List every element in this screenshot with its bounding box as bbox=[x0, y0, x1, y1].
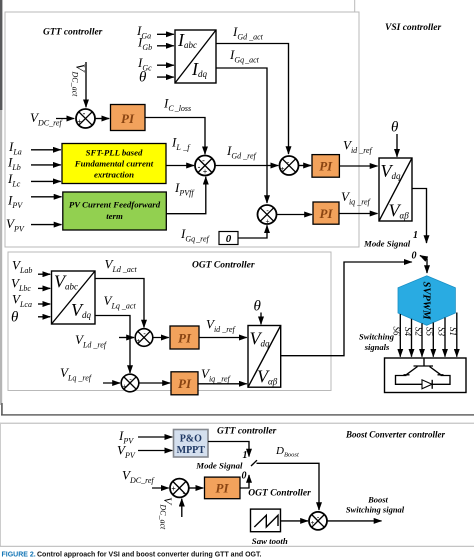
svg-text:S1: S1 bbox=[448, 327, 458, 336]
wire PI-B to dq/ab block bbox=[339, 165, 377, 167]
svg-text:OGT Controller: OGT Controller bbox=[192, 261, 255, 271]
svg-text:Switching: Switching bbox=[359, 332, 395, 342]
svg-text:VLca: VLca bbox=[12, 292, 32, 310]
svg-text:Viq_ref: Viq_ref bbox=[201, 366, 232, 384]
diode (antiparallel) bbox=[422, 380, 432, 389]
wire PI-D to OGT dq/ab block bbox=[199, 337, 247, 339]
svg-text:θ: θ bbox=[254, 299, 262, 315]
wire I_Gc to abc/dq bbox=[157, 64, 174, 66]
wire OGT dq/ab output to mode switch input 0 bbox=[281, 262, 412, 356]
summing junction J1 (current reference) bbox=[195, 156, 215, 177]
svg-text:P&O: P&O bbox=[180, 434, 202, 445]
wire I_Gq_ref zero box to J3 bbox=[238, 225, 267, 238]
wire V_DC_act down to summing junction bbox=[85, 62, 87, 107]
stub line above GTT box bbox=[354, 0, 356, 12]
wire D_Boost switch to comparator bbox=[257, 463, 320, 510]
wire theta to GTT dq/ab block bbox=[396, 134, 398, 157]
wire J3 to PI-C bbox=[277, 214, 313, 216]
svg-text:+: + bbox=[137, 337, 141, 345]
svg-text:ILb: ILb bbox=[7, 155, 21, 173]
transform block V_dq / V_ab (OGT) bbox=[248, 326, 281, 388]
Boost converter box left border bbox=[0, 423, 1, 547]
svg-text:SFT-PLL based: SFT-PLL based bbox=[86, 148, 143, 158]
svg-text:PI: PI bbox=[319, 159, 333, 174]
wire S3 bbox=[444, 318, 446, 357]
wire MPPT to mode switch input 1 bbox=[208, 442, 249, 457]
svg-text:Switching signal: Switching signal bbox=[346, 505, 405, 515]
wire J6 to PI-F bbox=[189, 487, 204, 489]
summing junction J3 (q-axis current error) bbox=[258, 205, 277, 226]
svg-text:-: - bbox=[83, 109, 86, 118]
frame: VSI region bottom border bbox=[1, 414, 474, 415]
svg-text:PV Current Feedforward: PV Current Feedforward bbox=[69, 200, 161, 210]
svg-text:PI: PI bbox=[178, 376, 192, 391]
wire I_Gd_ref J1 to J2 bbox=[215, 165, 278, 167]
svg-text:ILc: ILc bbox=[7, 171, 21, 189]
wire S6 bbox=[399, 314, 401, 357]
wire theta to abc/dq bbox=[157, 76, 174, 78]
svg-text:GTT controller: GTT controller bbox=[43, 28, 103, 38]
svg-text:Vid_ref: Vid_ref bbox=[343, 138, 374, 156]
Boost converter box bottom border bbox=[0, 546, 474, 547]
wire I_C_loss from PI-A down to J1 bbox=[145, 118, 205, 155]
summing junction J4 (d-axis voltage error) bbox=[135, 329, 153, 347]
svg-text:-: - bbox=[202, 156, 205, 165]
summing junction J2 (d-axis current error) bbox=[280, 156, 299, 175]
svg-text:Mode Signal: Mode Signal bbox=[195, 461, 243, 471]
wire PI-C to dq/ab block bbox=[339, 213, 378, 215]
wire S4 bbox=[411, 319, 413, 357]
svg-text:1: 1 bbox=[413, 230, 418, 241]
svg-text:IGd_ref: IGd_ref bbox=[226, 143, 257, 161]
frame: VSI region bottom-left edge bbox=[1, 403, 3, 416]
wire V_Lab to V_abc block bbox=[38, 273, 50, 275]
wire theta to OGT dq/ab block bbox=[260, 313, 262, 325]
svg-text:VLbc: VLbc bbox=[11, 276, 31, 294]
svg-text:0: 0 bbox=[242, 471, 247, 482]
svg-text:+: + bbox=[77, 118, 82, 127]
svg-text:VLab: VLab bbox=[12, 258, 32, 276]
transform block V_dq / V_ab (GTT) bbox=[379, 158, 412, 221]
wire J2 to PI-B bbox=[299, 165, 312, 167]
wire PI-F to mode switch input 0 bbox=[240, 475, 249, 488]
svg-text:Mode Signal: Mode Signal bbox=[363, 239, 411, 249]
svg-text:+: + bbox=[281, 165, 285, 173]
svg-text:S3: S3 bbox=[436, 327, 446, 337]
svg-text:IGd_act: IGd_act bbox=[232, 24, 264, 42]
frame: page left edge bar (top dark) bbox=[0, 0, 2, 110]
IGBT transistor symbol bbox=[404, 359, 444, 375]
svg-text:VDC_act: VDC_act bbox=[159, 497, 176, 530]
svg-text:IPVff: IPVff bbox=[174, 180, 195, 198]
wire I_Ga to abc/dq bbox=[157, 33, 174, 35]
frame: page left edge bar (lower light) bbox=[0, 110, 2, 405]
svg-text:S4: S4 bbox=[403, 327, 413, 337]
svg-text:VLd_ref: VLd_ref bbox=[75, 332, 108, 350]
svg-text:+: + bbox=[171, 485, 176, 494]
svg-text:VLd_act: VLd_act bbox=[105, 257, 138, 275]
PI controller PI-F (boost) bbox=[205, 477, 241, 499]
mode switch arm bbox=[420, 256, 428, 260]
svg-text:term: term bbox=[106, 211, 123, 221]
block VSI bridge (IGBT box) bbox=[385, 358, 467, 393]
wire I_PVff from green block up into J1 bbox=[166, 177, 206, 214]
wire I_Gq_act bbox=[216, 68, 267, 203]
svg-text:-: - bbox=[198, 163, 201, 172]
wire V_DC_ref to J6 bbox=[152, 487, 169, 489]
wire PI-E to OGT dq/ab block bbox=[198, 383, 247, 385]
wire I_Gd_act bbox=[216, 44, 289, 155]
wire I_Gb to abc/dq bbox=[157, 45, 174, 47]
svg-text:IC_loss: IC_loss bbox=[163, 96, 191, 114]
wire IGBT loop bbox=[396, 376, 451, 385]
svg-text:+: + bbox=[203, 168, 208, 177]
svg-text:PI: PI bbox=[216, 481, 230, 496]
wire I_La to SFT-PLL block bbox=[31, 149, 61, 151]
svg-text:OGT Controller: OGT Controller bbox=[248, 489, 311, 499]
GTT controller box bbox=[5, 12, 359, 247]
PI controller PI-A (DC voltage) bbox=[111, 105, 146, 131]
svg-text:VSI controller: VSI controller bbox=[385, 23, 442, 33]
block PV current feedforward term (green) bbox=[63, 192, 167, 230]
wire V_DC_act up into J6 bbox=[181, 499, 183, 517]
svg-text:SVPWM: SVPWM bbox=[421, 282, 432, 321]
wire S2 bbox=[421, 323, 423, 356]
summing junction J1v (V_DC error) bbox=[76, 109, 95, 128]
wire V_Ld_act to J4 bbox=[95, 279, 144, 328]
wire saw tooth to comparator bbox=[281, 520, 308, 522]
transform block V_abc / V_dq (OGT) bbox=[52, 271, 96, 324]
wire S1 bbox=[456, 313, 458, 357]
svg-text:+: + bbox=[266, 218, 270, 226]
svg-text:VDC_ref: VDC_ref bbox=[122, 468, 155, 486]
svg-text:-: - bbox=[183, 489, 186, 498]
PI controller PI-B (d-axis current) bbox=[312, 155, 339, 178]
wire V_Lq_ref to J5 bbox=[103, 382, 120, 384]
summing junction J6 (boost DC voltage error) bbox=[170, 479, 189, 498]
block zero reference bbox=[219, 232, 238, 246]
wire V_DC_ref to junction bbox=[56, 118, 74, 120]
svg-text:DBoost: DBoost bbox=[275, 445, 299, 459]
block P&O MPPT bbox=[174, 430, 209, 458]
svg-text:IGq_act: IGq_act bbox=[229, 47, 260, 65]
wire theta to V_abc block bbox=[38, 316, 50, 318]
wire S5 bbox=[432, 323, 434, 357]
wire V_Ld_ref to J4 bbox=[119, 337, 134, 339]
wire GTT dq/ab output to mode switch input 1 bbox=[412, 189, 427, 244]
boost mode switch arm bbox=[251, 460, 257, 466]
OGT controller box bbox=[8, 252, 331, 391]
comparator junction J7 (PWM) bbox=[309, 512, 327, 530]
svg-text:+: + bbox=[123, 383, 127, 391]
svg-text:θ: θ bbox=[11, 310, 19, 326]
svg-text:IPV: IPV bbox=[7, 193, 23, 211]
svg-text:S5: S5 bbox=[425, 327, 435, 337]
svg-text:VLq_ref: VLq_ref bbox=[60, 365, 93, 383]
wire V_PV to MPPT bbox=[138, 450, 172, 452]
svg-text:0: 0 bbox=[226, 233, 232, 245]
svg-text:MPPT: MPPT bbox=[177, 445, 206, 456]
svg-text:signals: signals bbox=[364, 342, 390, 352]
svg-text:θ: θ bbox=[139, 70, 147, 86]
svg-text:VLq_act: VLq_act bbox=[104, 293, 137, 311]
wire V_Lq_act to J5 bbox=[95, 316, 130, 374]
transform block abc/dq (I_abc / I_dq) bbox=[175, 30, 216, 83]
wire I_PV to feedforward block bbox=[31, 196, 62, 198]
svg-text:exrtraction: exrtraction bbox=[94, 170, 134, 180]
svg-text:FIGURE 2.: FIGURE 2. bbox=[2, 552, 36, 559]
svg-text:Control approach for VSI and b: Control approach for VSI and boost conve… bbox=[37, 552, 261, 559]
svg-text:IL_f: IL_f bbox=[171, 135, 191, 153]
svg-text:PI: PI bbox=[178, 330, 192, 345]
svg-text:VPV: VPV bbox=[6, 216, 25, 234]
svg-text:+: + bbox=[311, 519, 315, 527]
wire V_PV to feedforward block bbox=[31, 224, 62, 226]
svg-text:GTT controller: GTT controller bbox=[217, 427, 277, 437]
wire V_Lbc to V_abc block bbox=[38, 287, 50, 289]
svg-text:Saw tooth: Saw tooth bbox=[252, 536, 288, 546]
wire I_Lb to SFT-PLL block bbox=[31, 164, 61, 166]
svg-text:Boost Converter controller: Boost Converter controller bbox=[345, 430, 446, 440]
wire boost switching signal output bbox=[327, 520, 382, 522]
block SVPWM (hexagon) bbox=[398, 276, 455, 326]
wire J4 to PI-D bbox=[153, 337, 169, 339]
PI controller PI-E (OGT q-axis) bbox=[171, 372, 198, 395]
PI controller PI-D (OGT d-axis) bbox=[170, 326, 199, 349]
svg-text:Fundamental current: Fundamental current bbox=[74, 159, 154, 169]
block SFT-PLL fundamental current extraction (yellow) bbox=[62, 144, 166, 184]
wire I_Lc to SFT-PLL block bbox=[31, 180, 61, 182]
svg-text:1: 1 bbox=[243, 450, 248, 461]
wire J5 to PI-E bbox=[139, 382, 170, 384]
svg-text:θ: θ bbox=[391, 120, 399, 136]
summing junction J5 (q-axis voltage error) bbox=[121, 374, 139, 392]
wire J1v to PI-A bbox=[95, 118, 109, 120]
svg-text:S2: S2 bbox=[413, 327, 423, 337]
svg-text:Boost: Boost bbox=[367, 495, 388, 505]
wire I_PV to MPPT bbox=[138, 436, 172, 438]
svg-text:0: 0 bbox=[412, 251, 417, 262]
wire V_Lca to V_abc block bbox=[38, 303, 50, 305]
svg-text:IGq_ref: IGq_ref bbox=[180, 226, 210, 244]
PI controller PI-C (q-axis current) bbox=[313, 202, 339, 224]
wire I_L_f to J1 bbox=[166, 165, 194, 167]
Boost converter box top border bbox=[0, 423, 474, 424]
svg-text:Viq_ref: Viq_ref bbox=[341, 189, 372, 207]
block saw tooth generator bbox=[251, 509, 281, 532]
wire mode switch to SVPWM bbox=[426, 259, 428, 274]
svg-text:Vid_ref: Vid_ref bbox=[206, 317, 237, 335]
svg-text:PI: PI bbox=[320, 206, 334, 221]
svg-text:PI: PI bbox=[121, 111, 135, 126]
